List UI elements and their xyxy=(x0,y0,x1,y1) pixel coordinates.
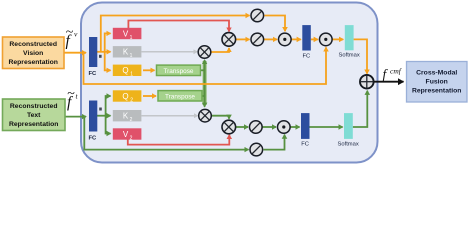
svg-text:K: K xyxy=(123,48,129,57)
FC bar 3 (text input) xyxy=(89,101,97,132)
box K1 xyxy=(113,46,142,57)
op: matmul K2xQ1t xyxy=(199,109,212,122)
wire: softmax1 to adder xyxy=(354,39,367,73)
box V1 xyxy=(113,28,142,39)
FC bar 4 (bottom right) xyxy=(301,113,310,139)
svg-text:2: 2 xyxy=(130,97,133,103)
svg-text:Representation: Representation xyxy=(9,121,58,128)
op: scale (top rail) xyxy=(251,9,264,22)
wire: transpose1 out joins vertical xyxy=(200,69,205,71)
svg-text:~: ~ xyxy=(67,87,75,102)
svg-text:~: ~ xyxy=(66,25,74,40)
svg-text:t: t xyxy=(76,92,79,101)
box Q2 xyxy=(113,90,142,101)
wire: FC1 output to K1 xyxy=(96,51,111,53)
svg-text:v: v xyxy=(74,30,78,39)
wire: K1 to matmul (gray) xyxy=(142,51,198,53)
wire: red from V1 top into matmul2 xyxy=(128,21,229,32)
wire: K2 to matmul (gray) xyxy=(142,115,198,117)
wire: FC2 to dot product 2 xyxy=(311,38,318,40)
op: matmul K1xQ2t xyxy=(198,46,211,59)
svg-text:Text: Text xyxy=(27,112,41,119)
box Transpose 2 xyxy=(158,91,202,101)
wire: vision bypass drop to lower rail xyxy=(84,47,327,84)
op: scale (bottom rail) xyxy=(250,143,263,156)
svg-text:Representation: Representation xyxy=(8,59,57,66)
wire: output arrow xyxy=(374,81,403,83)
module container xyxy=(81,3,378,163)
op: scale (top row) xyxy=(251,33,264,46)
op: scale (bottom row) xyxy=(250,121,263,134)
svg-text:Reconstructed: Reconstructed xyxy=(9,41,57,48)
op: matmul with V1 xyxy=(222,33,236,47)
wire: transpose shared vertical xyxy=(203,61,207,105)
FC bar 1 (vision input) xyxy=(89,37,97,67)
op: dot product b xyxy=(278,121,291,134)
wire: Q1 to Transpose1 xyxy=(143,69,155,71)
wire: text bypass to bottom rail through scale xyxy=(84,118,248,150)
svg-text:f: f xyxy=(383,67,389,82)
svg-text:V: V xyxy=(123,29,129,38)
box: Cross-Modal Fusion Representation xyxy=(407,62,468,103)
wire: dot product to FC2 xyxy=(292,38,301,40)
wire: matmul2 to scale xyxy=(236,38,250,40)
op: adder xyxy=(360,75,374,89)
FC bar 2 (top right) xyxy=(302,25,311,50)
wire: top rail after scale down into dot-product xyxy=(265,16,286,32)
svg-text:Softmax: Softmax xyxy=(338,142,359,148)
junction mark y xyxy=(99,108,102,111)
box V2 xyxy=(113,128,142,139)
wire: trunk branch Q1 xyxy=(105,52,111,71)
junction mark x xyxy=(99,55,102,58)
op: dot product 1 xyxy=(279,33,292,46)
svg-text:Q: Q xyxy=(122,66,128,75)
wire: scale b to dot b xyxy=(262,126,276,128)
svg-text:Vision: Vision xyxy=(23,50,43,57)
wire: matmul2b to scale b xyxy=(236,126,249,128)
wire: dot2 to softmax xyxy=(333,38,344,40)
svg-text:FC: FC xyxy=(89,71,98,77)
box K2 xyxy=(113,110,142,121)
wire: Q2 to Transpose2 xyxy=(143,95,156,97)
svg-text:1: 1 xyxy=(130,53,133,59)
svg-text:1: 1 xyxy=(130,72,133,78)
svg-text:FC: FC xyxy=(301,142,309,148)
wire: scale to dot product xyxy=(264,38,277,40)
wire: trunk to Q2 xyxy=(106,96,111,116)
svg-text:Transpose: Transpose xyxy=(165,93,195,100)
svg-text:FC: FC xyxy=(89,136,98,142)
svg-text:1: 1 xyxy=(130,35,133,41)
svg-text:Fusion: Fusion xyxy=(426,79,448,86)
box Q1 xyxy=(113,65,142,76)
svg-text:Softmax: Softmax xyxy=(339,53,360,59)
wire: text input arrow xyxy=(65,116,86,118)
wire: transpose2 out joins vertical xyxy=(202,95,205,97)
svg-text:cmf: cmf xyxy=(390,67,402,76)
svg-text:2: 2 xyxy=(130,117,133,123)
Softmax 1 xyxy=(345,25,354,50)
svg-text:Q: Q xyxy=(122,92,128,101)
wire: softmax2 up to adder xyxy=(353,91,368,127)
op: matmul with V2 xyxy=(222,120,236,134)
box Transpose 1 xyxy=(157,65,201,75)
svg-text:K: K xyxy=(123,112,129,121)
op: dot product 2 xyxy=(320,33,333,46)
wire: riser to top rail through scale xyxy=(101,16,250,52)
wire: bottom rail after scale up into dot product xyxy=(264,135,285,150)
box: Reconstructed Text Representation xyxy=(3,99,66,131)
wire: matmul1b out elbow into matmul2b xyxy=(212,116,230,119)
wire: dot b to FC4 xyxy=(290,126,300,128)
svg-text:2: 2 xyxy=(130,135,133,141)
svg-text:Transpose: Transpose xyxy=(164,68,194,75)
wire: matmul1 out to matmul2 (orange elbow) xyxy=(211,48,229,52)
wire: FC3 output to K2 xyxy=(96,115,111,117)
svg-text:FC: FC xyxy=(303,54,311,60)
wire: red from V2 bottom into matmul2b xyxy=(128,135,230,145)
svg-text:Cross-Modal: Cross-Modal xyxy=(416,70,457,77)
svg-text:Reconstructed: Reconstructed xyxy=(10,103,58,110)
svg-text:V: V xyxy=(123,130,129,139)
box: Reconstructed Vision Representation xyxy=(3,37,65,69)
wire: vision input arrow xyxy=(64,52,86,54)
wire: trunk to V2 xyxy=(106,116,111,134)
svg-text:Representation: Representation xyxy=(412,88,461,95)
wire: trunk to V1 and Q1 xyxy=(105,33,111,51)
wire: FC4 to softmax2 xyxy=(310,126,343,128)
Softmax 2 xyxy=(344,113,353,139)
